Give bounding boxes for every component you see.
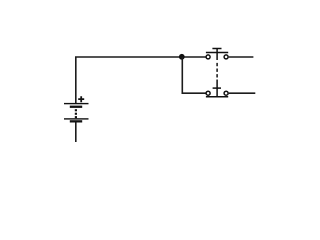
wire from S1 right terminal to right <box>229 56 254 58</box>
wire from battery positive up and right to node A <box>76 57 206 103</box>
switch S1 right terminal <box>224 55 228 59</box>
battery B1 plus label <box>78 96 84 102</box>
switch S2 (NC contact) left terminal <box>206 91 210 95</box>
wire from S2 right terminal to right <box>229 92 256 94</box>
battery B1 cell 1 long plate <box>64 103 89 104</box>
battery B1 dotted cells <box>75 109 77 111</box>
node A junction dot <box>179 54 185 60</box>
switch S1 actuator cap <box>212 48 221 50</box>
switch S1 (NO pushbutton contact) left terminal <box>206 55 210 59</box>
switch S2 actuator stem <box>216 80 218 97</box>
battery B1 cell 2 short thick plate <box>70 120 82 122</box>
switch S2 bridge bar <box>206 96 228 98</box>
battery B1 cell 2 long plate <box>64 118 89 119</box>
mechanical link (dashed) between S1 and S2 <box>216 63 218 78</box>
switch S2 actuator cap <box>213 87 221 89</box>
switch S1 bridge bar <box>206 52 228 54</box>
wire from battery negative down <box>75 123 77 143</box>
switch S2 right terminal <box>224 91 228 95</box>
switch S1 actuator stem <box>216 49 218 61</box>
wire from node A down and right to switch S2 <box>182 57 205 93</box>
battery B1 cell 1 short thick plate <box>70 106 82 108</box>
